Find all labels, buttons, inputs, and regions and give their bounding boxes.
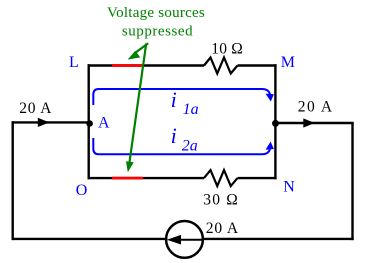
svg-text:1a: 1a — [183, 101, 199, 118]
svg-text:M: M — [281, 54, 295, 71]
wire outer left vertical — [11, 121, 13, 240]
arrow 20 A left wire — [38, 118, 50, 127]
svg-text:20 A: 20 A — [206, 220, 239, 237]
wire top segment L to resistor — [88, 64, 205, 66]
mesh current loop i1a arc — [93, 89, 270, 105]
node dot right junction — [272, 120, 279, 127]
resistor R1 10 ohm zigzag — [204, 58, 238, 74]
svg-text:i: i — [171, 87, 177, 112]
svg-text:N: N — [283, 179, 295, 196]
svg-text:L: L — [69, 54, 79, 71]
svg-text:O: O — [76, 182, 88, 199]
svg-text:i: i — [171, 123, 177, 148]
wire inner rect right vertical M-N — [274, 64, 276, 179]
wire top segment resistor to M — [238, 64, 277, 66]
red suppressed-source short (top) — [112, 64, 143, 67]
resistor R2 30 ohm zigzag — [204, 170, 238, 186]
svg-text:30 Ω: 30 Ω — [203, 191, 239, 208]
wire outer bottom right of source — [202, 238, 354, 240]
wire outer right vertical — [351, 123, 353, 240]
mesh current loop i1a arrowhead — [266, 94, 274, 102]
current source arrow (points left) — [177, 239, 202, 241]
wire inner rect left vertical L-A-O — [87, 64, 89, 179]
mesh current loop i2a arrowhead — [266, 142, 274, 150]
node A junction dot — [86, 120, 93, 127]
red suppressed-source short (bottom) — [112, 177, 143, 180]
svg-text:2a: 2a — [182, 137, 198, 154]
arrow 20 A right wire — [303, 118, 314, 127]
wire right lead from node to outer — [276, 122, 354, 124]
svg-text:A: A — [98, 114, 110, 131]
svg-text:20 A: 20 A — [19, 100, 52, 117]
svg-text:10 Ω: 10 Ω — [211, 41, 243, 58]
wire outer bottom left of source — [13, 238, 167, 240]
wire bottom segment resistor to N — [238, 177, 277, 179]
mesh current loop i2a arc — [93, 138, 270, 154]
svg-text:suppressed: suppressed — [122, 23, 193, 39]
svg-text:20 A: 20 A — [298, 99, 334, 116]
wire bottom segment O to resistor — [88, 177, 205, 179]
svg-text:Voltage sources: Voltage sources — [107, 5, 205, 21]
wire left lead into node A — [12, 121, 89, 123]
green pointer arrow to bottom red short — [129, 44, 146, 164]
current source I1 circle — [166, 221, 203, 258]
green pointer arrow to top red short — [134, 43, 148, 53]
